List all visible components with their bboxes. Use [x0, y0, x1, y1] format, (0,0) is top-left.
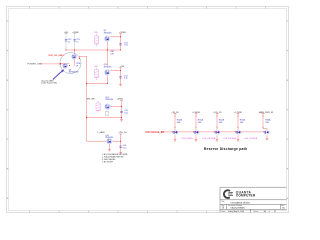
svg-text:DIS_15VS5A: DIS_15VS5A: [224, 137, 237, 140]
resistor R41 leads: [96, 68, 98, 70]
junction Q9 drain: [120, 36, 121, 37]
wire Q9 source: [106, 42, 108, 66]
resistor R42: [96, 103, 100, 110]
ground col D: [119, 83, 122, 85]
power bar G5: [262, 113, 265, 115]
wire column B: [120, 34, 122, 50]
svg-text:30: 30: [264, 211, 266, 213]
junction A4: [120, 50, 121, 51]
transistor Q14: [194, 130, 200, 134]
svg-text:R39: R39: [94, 32, 97, 34]
border frame outer: [7, 7, 289, 213]
pin tick 5b: [262, 126, 263, 128]
wire Q12 gate: [87, 140, 107, 142]
wire Q10 drain: [110, 70, 120, 72]
svg-text:37: 37: [274, 211, 276, 213]
svg-text:DISCHARGE MODEL: DISCHARGE MODEL: [231, 201, 251, 204]
pin tick 5a: [262, 115, 263, 117]
wire Q11 drain: [111, 105, 122, 107]
power bar G4: [237, 113, 240, 115]
ground col E: [120, 119, 123, 121]
power bar F: [119, 133, 122, 135]
transistor Q11 stub: [105, 112, 108, 116]
wire column D: [120, 68, 122, 84]
svg-text:COMPUTER: COMPUTER: [236, 194, 256, 198]
wire long vertical: [86, 56, 88, 141]
pin tick 1a: [174, 115, 175, 117]
capacitor C56: [119, 145, 122, 147]
svg-text:L_GATE: L_GATE: [97, 131, 105, 134]
junction circle 3: [79, 58, 80, 59]
wire column F: [120, 134, 122, 152]
transistor Q8A: [72, 54, 77, 59]
wire fet source 2: [195, 135, 197, 139]
svg-text:+3VSB: +3VSB: [116, 98, 123, 100]
resistor R42 leads: [97, 101, 99, 103]
wire power stub 1: [65, 33, 67, 50]
svg-text:2N7002DW: 2N7002DW: [69, 72, 79, 74]
junction circle 1: [69, 65, 70, 66]
wire Q12 source: [109, 144, 111, 149]
wire power stub 2: [74, 33, 76, 50]
wire D bottom: [87, 82, 108, 84]
ground Q12: [108, 148, 111, 150]
svg-text:+3VSB: +3VSB: [119, 32, 126, 34]
wire net A: [66, 49, 121, 51]
pin tick 3a: [216, 115, 217, 117]
wire column E: [121, 101, 123, 120]
pin circle: [60, 63, 61, 64]
svg-text:SW_ON#: SW_ON#: [87, 99, 96, 101]
junction A2: [74, 50, 75, 51]
power bar 2: [73, 33, 76, 35]
junction gate 5: [263, 131, 264, 132]
ground cell 5: [266, 137, 269, 139]
svg-text:R41: R41: [94, 66, 97, 68]
junction Q12 drain: [120, 141, 121, 142]
resistor R39 leads: [96, 34, 98, 36]
capacitor C55: [120, 110, 123, 112]
junction D bottom: [107, 83, 108, 84]
junction gate 1: [172, 131, 173, 132]
svg-text:0.1u: 0.1u: [124, 78, 128, 80]
wire gate q8a: [74, 50, 76, 54]
ground cell 1: [174, 139, 177, 141]
wire power_sw: [40, 63, 60, 65]
wire drop 5 bend: [263, 128, 267, 130]
svg-text:1u: 1u: [76, 41, 78, 43]
transistor Q8B: [63, 63, 68, 68]
power bar G2: [195, 113, 198, 115]
junction gate 3: [214, 131, 215, 132]
junction E bottom: [121, 117, 122, 118]
junction gate 4: [235, 131, 236, 132]
capacitor C52: [65, 39, 68, 41]
wire drop 1: [174, 114, 176, 131]
transistor Q10: [105, 70, 110, 75]
wire drop 4: [237, 114, 239, 131]
svg-text:DIS_3VS5A: DIS_3VS5A: [182, 137, 194, 140]
svg-text:Friday, May 16, 2008: Friday, May 16, 2008: [228, 210, 244, 213]
wire q8a source: [74, 59, 76, 65]
wire Q12 drain: [113, 140, 121, 142]
junction Q11 drain: [121, 106, 122, 107]
transistor Q15: [215, 130, 221, 134]
zone reference marks: [29, 7, 31, 9]
svg-text:Title: Title: [221, 200, 224, 203]
pin tick 1b: [174, 126, 175, 128]
power bar G1: [174, 113, 177, 115]
wire Q10 source: [106, 76, 108, 84]
wire drop 2: [195, 114, 197, 131]
pin tick 3b: [216, 126, 217, 128]
wire fet source 1: [174, 135, 176, 139]
svg-text:Size: Size: [221, 205, 224, 207]
junction A1: [66, 50, 67, 51]
junction LV1: [86, 83, 87, 84]
svg-text:DIS_18VSUA: DIS_18VSUA: [203, 137, 216, 140]
transistor Q9: [105, 36, 110, 41]
callout arrow: [53, 71, 63, 80]
junction A3: [107, 50, 108, 51]
wire fet source 3: [216, 135, 218, 139]
pin tick 2a: [195, 115, 196, 117]
ground cell 2: [195, 139, 198, 141]
transistor Q12: [107, 139, 112, 144]
svg-text:4. NO STUFF: 4. NO STUFF: [102, 162, 114, 164]
svg-text:1u: 1u: [68, 41, 70, 43]
junction circle 2: [60, 63, 61, 64]
junction gate 2: [193, 131, 194, 132]
ground col F: [119, 151, 122, 153]
svg-text:0.1u: 0.1u: [123, 148, 127, 150]
svg-text:2N7002K: 2N7002K: [104, 67, 113, 69]
annotation circle: [60, 53, 81, 74]
power bar 1: [65, 33, 68, 35]
wire E bottom: [87, 117, 122, 119]
svg-text:DISCHARGE_EN: DISCHARGE_EN: [145, 131, 164, 134]
svg-text:2N7002K: 2N7002K: [104, 33, 113, 35]
logo QUANTA C mark: [224, 190, 230, 198]
wire drop 5: [262, 114, 264, 129]
svg-text:under Power SW: under Power SW: [41, 82, 57, 85]
capacitor C53: [119, 43, 122, 45]
svg-text:2N7002K: 2N7002K: [105, 137, 114, 139]
power bar B: [119, 33, 122, 35]
transistor Q13: [173, 130, 179, 134]
svg-text:DIS_12VSUA: DIS_12VSUA: [245, 137, 258, 140]
wire pwr_sw_on: [59, 54, 65, 56]
pin tick 4a: [237, 115, 238, 117]
capacitor C51: [73, 39, 76, 41]
power bar D: [119, 67, 122, 69]
resistor R39: [95, 36, 99, 44]
junction Q10 drain: [120, 70, 121, 71]
capacitor C54: [119, 76, 122, 78]
wire Q9 drain: [110, 36, 120, 38]
pin tick 4b: [237, 126, 238, 128]
ground cell 3: [216, 139, 219, 141]
svg-text:Sheet: Sheet: [254, 210, 259, 213]
resistor R41: [95, 70, 99, 78]
transistor Q17: [264, 130, 270, 134]
svg-text:Reserve Discharge path: Reserve Discharge path: [204, 147, 247, 151]
svg-text:0.1u: 0.1u: [124, 45, 128, 47]
wire fet source 4: [237, 135, 239, 139]
border frame inner: [9, 9, 287, 211]
power bar G3: [216, 113, 219, 115]
wire pwr sw horizontal: [61, 63, 69, 65]
svg-text:2N7002K: 2N7002K: [105, 99, 114, 101]
title block frame: [220, 186, 287, 188]
svg-text:DA0ZQ1MB6E0: DA0ZQ1MB6E0: [231, 206, 246, 209]
wire fet source 5: [266, 135, 268, 138]
svg-text:0.1u: 0.1u: [124, 113, 128, 115]
svg-text:+3VL_S0: +3VL_S0: [118, 132, 127, 134]
ground cell 4: [237, 139, 240, 141]
wire discharge bus: [161, 131, 264, 133]
transistor Q11: [105, 104, 110, 109]
wire drop 3: [216, 114, 218, 131]
transistor Q16: [236, 130, 242, 134]
svg-text:MAIN_PWR_S5: MAIN_PWR_S5: [259, 111, 274, 114]
power bar E: [120, 100, 123, 102]
wire circle exit: [79, 55, 86, 57]
svg-text:Date:: Date:: [221, 210, 226, 213]
pin tick 2b: [195, 126, 196, 128]
junction LV2: [86, 117, 87, 118]
